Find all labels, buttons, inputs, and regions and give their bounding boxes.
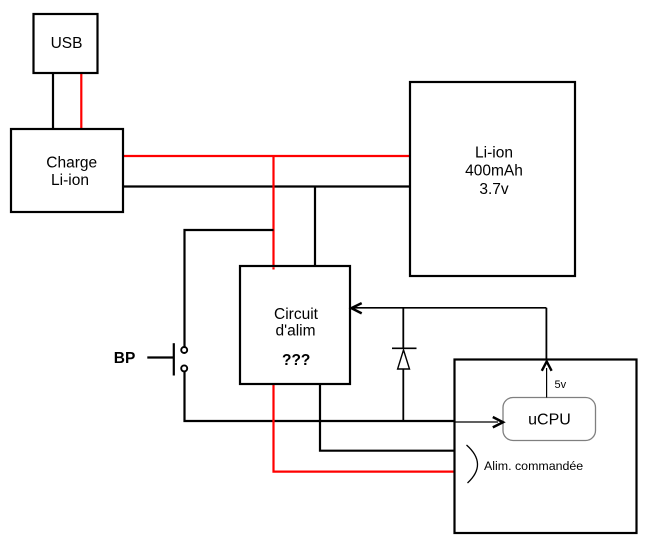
svg-text:USB: USB xyxy=(51,35,83,52)
wire diode branch lower xyxy=(402,369,404,421)
box microcontroller board xyxy=(455,360,637,534)
push-button BP stem xyxy=(147,356,174,358)
wire red USB to Charge xyxy=(80,72,82,131)
wire red Circuit d'alim output to board xyxy=(274,383,454,472)
brace for commanded supply lines xyxy=(467,445,478,483)
push-button BP contact circle top xyxy=(181,347,187,353)
svg-text:3.7v: 3.7v xyxy=(479,181,509,198)
wire black Circuit d'alim output to board xyxy=(320,383,456,451)
svg-text:Li-ion: Li-ion xyxy=(51,172,89,189)
diode D1 triangle xyxy=(398,350,410,369)
svg-text:d'alim: d'alim xyxy=(276,322,316,339)
wire red Charge to battery (+) xyxy=(122,155,411,157)
connector battery to Circuit d'alim (arrow left) xyxy=(352,307,546,309)
svg-text:400mAh: 400mAh xyxy=(465,162,523,179)
svg-text:Circuit: Circuit xyxy=(274,306,319,323)
wire black Charge to battery (-) xyxy=(122,185,411,187)
push-button BP actuator bar xyxy=(173,343,175,375)
wire down to board top xyxy=(545,308,547,359)
svg-text:???: ??? xyxy=(282,352,310,369)
arrow into uCPU left (shaft) xyxy=(455,421,498,423)
arrowhead 5v pointing up xyxy=(542,362,552,371)
diode D1 cathode bar xyxy=(392,347,417,349)
wire black branch down to Circuit d'alim xyxy=(314,187,316,268)
wire black USB to Charge xyxy=(52,72,54,130)
wire BP top (red net to push-button) xyxy=(185,230,274,347)
box Circuit d'alim xyxy=(240,266,350,384)
svg-text:BP: BP xyxy=(114,350,136,367)
box USB xyxy=(34,14,98,73)
svg-text:Charge: Charge xyxy=(46,155,97,172)
box battery Li-ion 400mAh 3.7v xyxy=(410,82,575,276)
svg-text:Li-ion: Li-ion xyxy=(475,144,513,161)
wire red branch down to Circuit d'alim xyxy=(272,156,274,269)
wire diode branch upper xyxy=(402,308,404,348)
red wire stub entering Circuit d'alim xyxy=(272,267,274,269)
arrowhead into uCPU pointing right xyxy=(493,417,503,427)
box uCPU xyxy=(503,398,596,441)
svg-text:5v: 5v xyxy=(555,379,567,391)
arrow 5v into uCPU (shaft) xyxy=(546,368,548,398)
wire BP bottom to uCPU board xyxy=(185,371,457,421)
push-button BP contact circle bottom xyxy=(181,365,187,371)
svg-text:Alim. commandée: Alim. commandée xyxy=(484,459,583,473)
box Charge Li-ion xyxy=(11,129,123,212)
arrowhead into Circuit d'alim xyxy=(351,303,361,313)
svg-text:uCPU: uCPU xyxy=(528,412,571,429)
